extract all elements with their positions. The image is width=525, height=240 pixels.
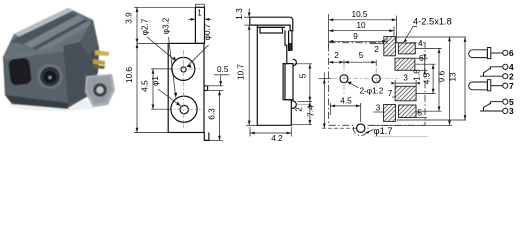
svg-text:10: 10: [356, 21, 366, 30]
svg-text:3: 3: [403, 74, 408, 83]
svg-text:9.6: 9.6: [438, 70, 447, 82]
dim 4.2 line: [250, 132, 291, 134]
svg-text:φ0.7: φ0.7: [203, 23, 212, 40]
dim 2-5 ext hole1: [343, 60, 345, 64]
bump centerline: [297, 104, 312, 106]
side view: lower bump D: [291, 101, 296, 109]
photo: front round opening: [44, 71, 56, 83]
svg-text:4: 4: [418, 39, 423, 48]
pin 5 wire: [491, 102, 503, 105]
dim 3.9/10.6 extension top: [134, 6, 195, 8]
photo: tab inner shade: [87, 76, 112, 104]
dim 3.9 extension mid: [137, 42, 168, 44]
photo: top rim highlight: [14, 8, 73, 37]
dim 1 arrow lines: [188, 18, 195, 20]
right ext padC top: [395, 36, 466, 38]
pad 3 (bottom vertical): [384, 105, 396, 122]
side bottom ext: [292, 124, 313, 126]
dim top left ext: [328, 14, 330, 48]
front view: top circle hole: [181, 67, 186, 72]
pin 6 circle: [503, 50, 508, 55]
hole phi1.7: [357, 124, 365, 132]
hole2 vertical centerline: [375, 68, 377, 91]
dim 6.3 line: [219, 91, 221, 141]
leader phi0.7: [187, 45, 209, 67]
dim 10.6 extension bottom: [134, 132, 168, 134]
dim 5 ext top: [295, 63, 313, 65]
photo: front round opening mid: [40, 67, 60, 87]
svg-text:1: 1: [197, 9, 202, 18]
svg-text:φ1: φ1: [151, 76, 160, 86]
dim 9 right ext: [386, 38, 388, 45]
side view: side plate: [283, 64, 293, 100]
svg-text:5: 5: [359, 51, 364, 60]
photo: top rib dark 2: [32, 19, 88, 50]
svg-text:10.5: 10.5: [352, 10, 368, 19]
pin 3 circle: [503, 108, 508, 113]
svg-text:7.4: 7.4: [307, 105, 316, 117]
leader phi1: [158, 89, 181, 106]
dim 3 line over pad7: [395, 82, 416, 84]
photo: top rib dark 1: [10, 12, 78, 44]
pin 4 circle: [503, 64, 508, 69]
svg-text:2: 2: [334, 51, 339, 60]
label 5 leader: [416, 112, 420, 114]
pin 7 circle: [503, 83, 508, 88]
dim 4.2 ext right: [290, 127, 292, 137]
dim 1.3 ext lines: [244, 16, 250, 18]
dim 9 line: [329, 40, 387, 42]
svg-text:3: 3: [509, 106, 514, 116]
dim 9.6 line: [438, 48, 440, 111]
photo: right side face: [63, 20, 99, 103]
dim 2-5 ext hole2: [375, 60, 377, 66]
dim 3 ext right: [415, 80, 417, 87]
right ext pad5 center: [416, 110, 442, 112]
side view texts: [235, 8, 308, 143]
dim 10 right ext: [393, 27, 395, 38]
schematic left vertical: [464, 37, 466, 120]
svg-text:6: 6: [419, 54, 424, 63]
pin 4 wire: [491, 67, 503, 70]
svg-text:2: 2: [295, 107, 304, 112]
photo: gold pin 1: [95, 50, 109, 56]
right ext pad7 center: [416, 93, 435, 95]
photo: pin shadow: [93, 65, 105, 69]
front view: bottom right foot: [204, 133, 209, 141]
svg-text:4.2: 4.2: [271, 134, 283, 143]
svg-text:2: 2: [509, 71, 514, 81]
svg-text:13: 13: [449, 72, 458, 82]
dim 0.5 shelf: [214, 74, 230, 76]
svg-text:10.6: 10.6: [125, 67, 134, 83]
front view: vertical centerline: [183, 50, 185, 128]
holes centerline horizontal: [332, 78, 398, 80]
svg-text:3.9: 3.9: [125, 12, 134, 24]
footprint outline: [329, 43, 425, 136]
front view: body rectangle: [168, 43, 204, 132]
dim 4.5 line: [330, 105, 360, 107]
svg-text:9: 9: [353, 32, 358, 41]
plug 1 wire: [491, 52, 503, 54]
front view: bottom circle hole: [180, 105, 188, 113]
photo: base dark strip: [5, 95, 68, 109]
dim 10.7 ext bottom: [246, 124, 257, 126]
label 3 leader: [374, 111, 385, 113]
phi1.7 underline: [374, 136, 428, 138]
schematic pin numbers: [509, 48, 514, 116]
dim 1.3 arrow seg top: [248, 9, 250, 18]
pad 5 (bottom right): [399, 105, 417, 118]
svg-text:4.5: 4.5: [423, 72, 432, 84]
svg-text:1.8: 1.8: [413, 69, 422, 81]
dim 7.4 line: [323, 72, 325, 128]
photo: center pin dot: [48, 76, 51, 79]
photo: right side sheen: [80, 22, 98, 56]
dim 4.5 ext left: [329, 103, 331, 115]
pin 2 circle: [503, 74, 508, 79]
svg-text:7: 7: [388, 89, 393, 98]
front view: top tab pin: [195, 7, 204, 43]
svg-text:5: 5: [299, 73, 308, 78]
right ext outline bottom: [370, 124, 452, 126]
photo: top rib light 1: [24, 15, 85, 48]
pin 3 wire: [480, 110, 503, 112]
svg-text:φ1.7: φ1.7: [374, 125, 393, 136]
svg-text:φ2.7: φ2.7: [141, 18, 150, 35]
side view: lip cap: [250, 17, 293, 30]
arrows footprint: [347, 82, 352, 85]
right ext pad4 center: [415, 47, 441, 49]
dim 4.5 ext right: [360, 103, 362, 122]
dim 10.5 right ext: [396, 16, 398, 44]
front view: top circle horizontal centerline: [167, 68, 200, 70]
front view: bottom circle outer: [171, 96, 197, 122]
leader phi2.7: [147, 37, 176, 61]
plug 2 barrel: [469, 82, 488, 90]
right ext pad5 bottom: [416, 117, 427, 119]
dim 1 ext left: [194, 4, 196, 7]
plug 1 barrel: [469, 50, 488, 58]
pad 2 (top vertical): [384, 37, 396, 56]
svg-text:4-2.5x1.8: 4-2.5x1.8: [413, 16, 452, 26]
photo: tab hole ring: [93, 83, 107, 97]
svg-text:1.3: 1.3: [235, 8, 244, 20]
front view texts: [125, 9, 229, 120]
pad 4 (top right): [398, 43, 415, 54]
photo: tab hole: [96, 86, 103, 93]
dim 10.7 line: [248, 31, 250, 125]
leader 2-phi1.2: [348, 82, 359, 88]
side view: top right pin: [289, 31, 292, 51]
photo: top rib light 2: [36, 21, 92, 52]
hole1 vertical centerline: [343, 64, 345, 95]
dim 10.5 line: [329, 19, 397, 21]
dim 3 ext left: [394, 80, 396, 87]
plug 2 wire: [491, 85, 503, 87]
dim 2/5 line: [329, 61, 377, 63]
dim 4.2 ext left: [249, 127, 251, 137]
photo: front round opening ring: [37, 64, 62, 89]
front view: bottom circle horizontal centerline: [167, 108, 201, 110]
switch lever 5-3: [484, 103, 491, 111]
dim 6.3 ext bottom: [210, 139, 223, 141]
dim 0.5 ext top: [208, 85, 223, 87]
side view: body outline: [257, 25, 291, 125]
dim 2 ext: [298, 101, 313, 103]
arrows side view: [248, 13, 251, 18]
svg-text:4.5: 4.5: [340, 97, 352, 106]
svg-text:2: 2: [374, 45, 379, 54]
photo: shadow: [9, 99, 101, 111]
leader phi1.7: [366, 130, 374, 133]
dim 10 line: [329, 30, 394, 32]
photo: body silhouette: [3, 8, 99, 108]
leader phi3.2: [169, 37, 176, 98]
svg-text:5: 5: [418, 109, 423, 118]
front view: right side pin bump: [204, 86, 208, 91]
dim 4.5 ext top: [151, 68, 172, 70]
label 4-2.5x1.8 leader: [404, 27, 417, 43]
dim 5 line: [309, 64, 311, 102]
pin 2 wire: [480, 75, 503, 77]
hole phi1.2 right: [372, 75, 380, 83]
photo: front top bevel: [4, 46, 64, 60]
photo: front rect opening: [8, 57, 32, 85]
svg-text:10.7: 10.7: [237, 64, 246, 80]
dim 0.5 ext bottom: [208, 90, 223, 92]
dim 7.4 ext top: [319, 78, 332, 80]
right ext pad6 center: [416, 63, 436, 65]
photo: top face base: [4, 8, 93, 55]
hole phi1.2 left: [340, 75, 348, 83]
right ext pad6 bottom: [416, 69, 428, 71]
side view: body top under lip: [257, 26, 285, 28]
dim 2 line: [309, 102, 311, 125]
dim 0.5 arrow line top: [220, 75, 222, 86]
svg-text:2-φ1.2: 2-φ1.2: [360, 87, 384, 96]
plug 1 crossbar: [487, 48, 490, 59]
dim 4.5 ext bottom: [151, 108, 171, 110]
svg-text:7: 7: [509, 81, 514, 91]
pad 7 (middle): [395, 86, 416, 101]
svg-text:6.3: 6.3: [208, 108, 217, 120]
side view: lip inner line: [250, 24, 288, 26]
right ext pad6 top: [416, 57, 428, 59]
label 7 leader: [392, 96, 395, 98]
footprint texts: [307, 10, 458, 136]
svg-text:3: 3: [376, 104, 381, 113]
front view: top circle outer: [172, 57, 195, 80]
photo: front face: [4, 46, 68, 103]
pin 5 circle: [503, 99, 508, 104]
svg-text:6: 6: [509, 48, 514, 58]
switch lever 4-2: [484, 68, 491, 76]
dim 3.9+10.6 line: [136, 7, 138, 132]
photo: gold pin 2: [93, 59, 105, 65]
dim 1.3 arrow seg bottom: [248, 25, 250, 31]
svg-text:0.5: 0.5: [217, 65, 229, 74]
dim 1 ext right: [204, 4, 206, 7]
label 2 pad leader: [370, 43, 384, 45]
side view: pin inner lines: [289, 43, 291, 50]
photo: mounting tab: [85, 74, 115, 107]
dim 1.8 line: [424, 58, 426, 70]
svg-text:φ3.2: φ3.2: [162, 17, 171, 34]
arrows front view: [136, 7, 139, 12]
dim 4.5 line: [152, 69, 154, 109]
pad 6: [395, 58, 415, 70]
svg-text:4.5: 4.5: [141, 80, 150, 92]
plug 2 crossbar: [487, 80, 490, 91]
side view: plate top bump: [293, 59, 297, 65]
dim 13 line: [449, 37, 451, 126]
dim 4.5b line: [432, 64, 434, 93]
dim 7.4 ext bottom: [322, 127, 356, 129]
side view: recess window: [260, 27, 283, 33]
